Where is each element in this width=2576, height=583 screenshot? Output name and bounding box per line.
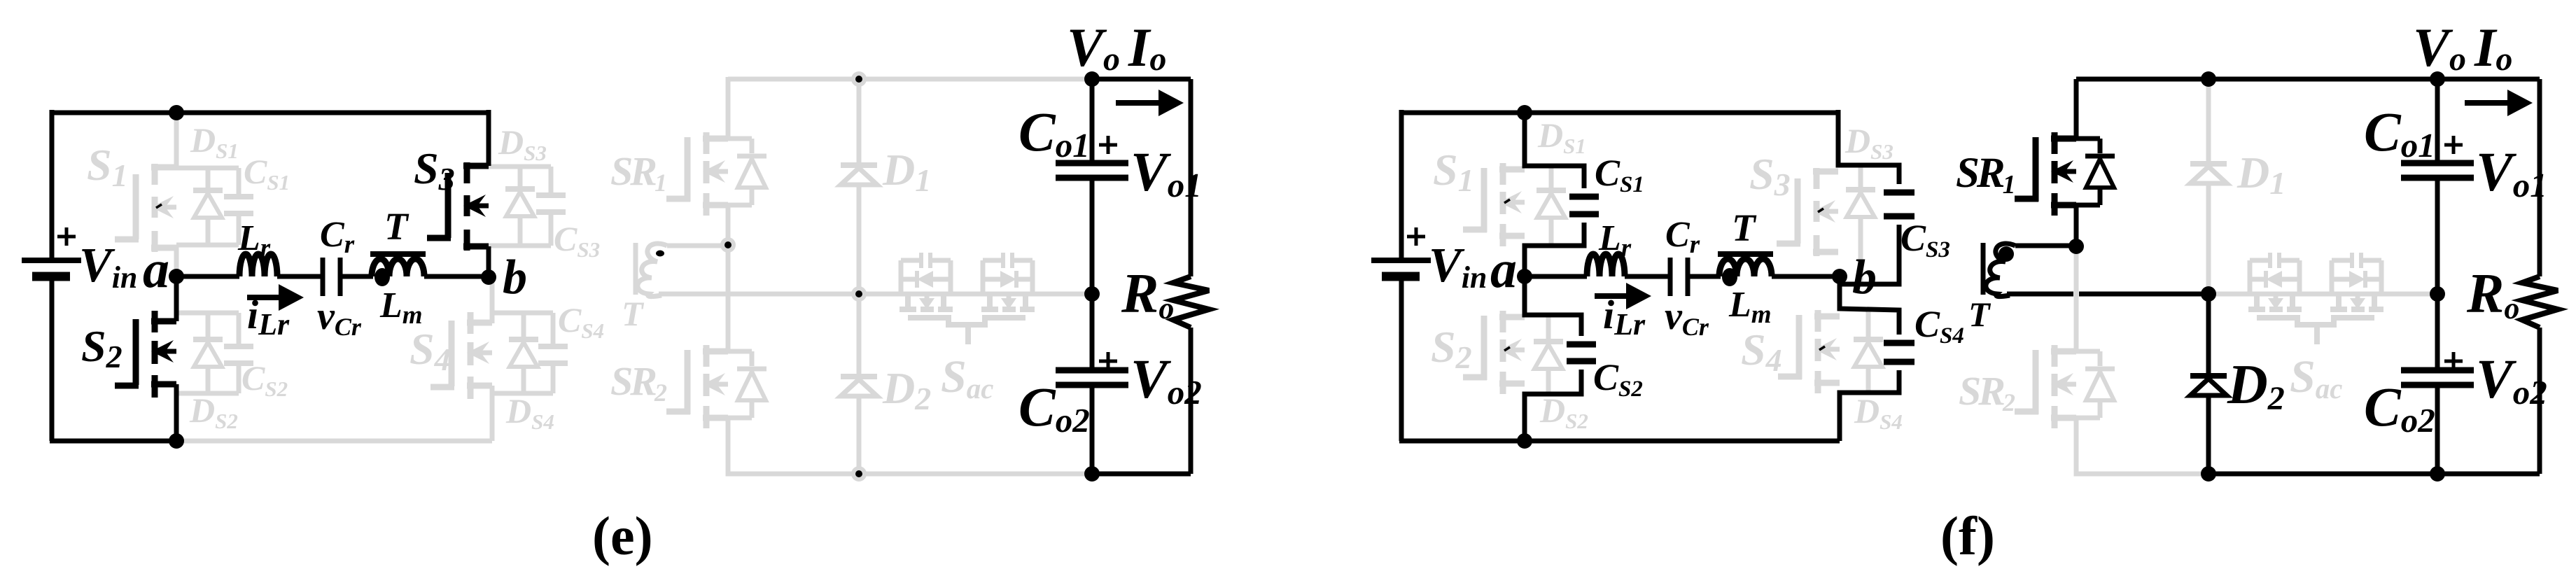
diode D2 (f dark) bbox=[2190, 376, 2227, 395]
transistor S2 (dark MOSFET) bbox=[115, 311, 176, 398]
wire Sac mid rail (f gray) bbox=[2208, 292, 2437, 297]
capacitor Co1 (e) bbox=[1056, 163, 1128, 178]
wire CS1 zigzag (f) bbox=[1525, 113, 1584, 276]
label iLr (e) bbox=[247, 292, 290, 342]
battery Vin short plate bbox=[32, 272, 70, 281]
svg-text:T: T bbox=[384, 205, 409, 248]
inductor Lm (f) bbox=[1719, 259, 1772, 276]
capacitor CS2 (gray) bbox=[224, 313, 253, 393]
label vCr (e) bbox=[317, 295, 362, 341]
battery Vin long plate (f) bbox=[1371, 258, 1431, 263]
wire node a to S2 drain bbox=[174, 276, 179, 321]
wire left vertical below battery bbox=[50, 279, 55, 441]
label CS3 (gray) bbox=[554, 219, 600, 262]
diode DS1 (gray body diode) bbox=[193, 168, 223, 245]
label DS1 (f gray) bbox=[1537, 115, 1586, 158]
wire Co2 to bottom rail (f) bbox=[2435, 385, 2440, 474]
wire D1 column (f gray) bbox=[2206, 79, 2211, 294]
node output top dot (e) bbox=[1084, 71, 1100, 87]
label CS2 (f dark) bbox=[1593, 356, 1643, 402]
battery plus sign (f) bbox=[1407, 227, 1425, 246]
svg-text:b: b bbox=[1852, 251, 1877, 304]
wire mid rail dark left (f) bbox=[2007, 292, 2073, 297]
label Vin (f) bbox=[1429, 239, 1487, 295]
diode DS3 (gray body diode) bbox=[505, 167, 535, 246]
svg-text:b: b bbox=[503, 251, 527, 304]
wire mid node to Co2 (e) bbox=[1090, 294, 1095, 370]
label SR1 (f dark) bbox=[1956, 150, 2014, 199]
diode DS4 (f gray body diode) bbox=[1854, 310, 1883, 393]
wire Co2 to bottom rail (e) bbox=[1090, 385, 1095, 474]
diode DS2 (f gray body diode) bbox=[1534, 315, 1563, 394]
wire D1 D2 column (e gray) bbox=[857, 79, 862, 474]
capacitor CS1 (f dark) bbox=[1569, 197, 1599, 214]
label Co2 (f) bbox=[2364, 377, 2435, 440]
switch Sac (e gray) bbox=[899, 253, 1035, 344]
wire SR2 source to bottom rail (gray) bbox=[728, 418, 1092, 474]
wire D/C branch top of S3 (gray) bbox=[489, 164, 551, 169]
transistor SR1 (f dark MOSFET) bbox=[2015, 132, 2076, 216]
wire S3 leg top corner (f) bbox=[1836, 110, 1841, 113]
wire D/C branch bottom of S1 (gray) bbox=[176, 243, 239, 248]
wire secondary top rail (e gray) bbox=[728, 77, 1092, 82]
label CS1 (f dark) bbox=[1595, 152, 1644, 197]
label Vo Io (e) bbox=[1067, 17, 1166, 78]
svg-text:(f): (f) bbox=[1940, 505, 1995, 566]
transformer secondary winding (f) bbox=[1986, 244, 2015, 297]
label iLr (f) bbox=[1603, 292, 1646, 342]
wire Co1 to mid node (e) bbox=[1090, 178, 1095, 294]
label Co1 (e) bbox=[1018, 102, 1090, 164]
transistor S3 (dark MOSFET) bbox=[427, 162, 489, 251]
label Vo Io (f) bbox=[2413, 17, 2512, 78]
label CS4 (f dark) bbox=[1914, 303, 1964, 349]
wire load right branch top (e) bbox=[1189, 79, 1193, 276]
capacitor CS2 (f dark) bbox=[1567, 344, 1596, 361]
label S3 bbox=[414, 143, 455, 197]
capacitor CS3 (f dark) bbox=[1884, 192, 1914, 216]
label node b (f) bbox=[1852, 251, 1877, 304]
node b dot (e) bbox=[481, 269, 496, 285]
wire D/C branch top of S4 (gray) bbox=[492, 311, 553, 316]
wire S3 source to node b bbox=[486, 246, 491, 277]
svg-text:(e): (e) bbox=[592, 505, 653, 566]
inductor Lm (e) bbox=[372, 259, 424, 276]
label CS1 (gray) bbox=[244, 152, 290, 195]
label DS3 (f gray) bbox=[1844, 121, 1893, 164]
node bottom junction dot (f) bbox=[1517, 433, 1532, 449]
label T secondary (f) bbox=[1968, 295, 1991, 334]
label CS4 (gray) bbox=[558, 300, 604, 343]
diode of SR1 (f dark) bbox=[2076, 139, 2115, 205]
wire output top rail dark (e) bbox=[1092, 77, 1191, 82]
capacitor CS4 (gray) bbox=[538, 313, 568, 393]
wire D/C branch top of S2 (gray) bbox=[176, 311, 239, 316]
label S3 (f gray) bbox=[1749, 149, 1791, 202]
diode D1 (f gray) bbox=[2190, 164, 2227, 183]
inductor Lr (e) bbox=[239, 254, 277, 276]
transistor SR2 (gray MOSFET) bbox=[666, 345, 728, 428]
transistor SR1 (gray MOSFET) bbox=[666, 132, 728, 216]
label S2 (f gray) bbox=[1431, 322, 1472, 375]
wire D/C branch bottom of S3 (gray) bbox=[489, 244, 551, 248]
svg-text:a: a bbox=[143, 240, 169, 299]
label Vo2 (e) bbox=[1130, 349, 1202, 412]
resistor Ro (f) bbox=[2522, 276, 2558, 328]
wire SR1 drain vertical (gray) bbox=[726, 77, 731, 139]
switch Sac (f gray) bbox=[2248, 253, 2383, 344]
battery Vin long plate bbox=[22, 258, 81, 263]
wire S1 source to node a (gray) bbox=[174, 246, 179, 276]
transistor S1 (gray MOSFET) bbox=[115, 164, 176, 252]
svg-text:a: a bbox=[1490, 240, 1517, 299]
wire center tap to SR junction (gray) bbox=[667, 244, 728, 248]
label S4 (gray) bbox=[409, 324, 451, 377]
node a dot (e) bbox=[169, 269, 184, 284]
label DS4 (gray) bbox=[505, 391, 554, 434]
polarity dot secondary (e) bbox=[656, 251, 664, 257]
wire SR1 source to tap node (f) bbox=[2074, 205, 2079, 246]
node output top dot (f) bbox=[2430, 71, 2445, 87]
current arrow iLr (f) bbox=[1595, 283, 1651, 309]
diode DS3 (f gray body diode) bbox=[1846, 165, 1875, 284]
label D1 (f gray) bbox=[2236, 148, 2285, 201]
label D2 (f dark) bbox=[2227, 354, 2285, 417]
polarity dot secondary (f) bbox=[1998, 246, 2014, 262]
wire Co1 top lead (f) bbox=[2435, 79, 2440, 163]
label Lr (f) bbox=[1598, 218, 1632, 262]
wire mid rail (e gray) bbox=[659, 292, 1092, 297]
plus sign Vo1 (e) bbox=[1099, 136, 1117, 154]
node dot D2 bottom (e) bbox=[851, 466, 867, 482]
wire SR1 drain vertical (f) bbox=[2074, 79, 2079, 139]
label D2 (e gray) bbox=[882, 363, 931, 416]
wire Lm to node b (f) bbox=[1772, 274, 1840, 279]
svg-text:T: T bbox=[1968, 295, 1991, 334]
label Co2 (e) bbox=[1018, 377, 1090, 440]
wire bottom rail gray segment bbox=[176, 439, 492, 444]
wire mid rail dark right (f) bbox=[2079, 292, 2208, 297]
label Lr (e) bbox=[237, 218, 271, 262]
node output mid dot (f) bbox=[2430, 286, 2445, 302]
battery plus sign bbox=[57, 227, 76, 246]
node dot D1 bottom mid rail (e) bbox=[851, 286, 867, 302]
current arrow iLr (e) bbox=[247, 284, 304, 311]
label Sac (e gray) bbox=[941, 351, 993, 405]
wire CS3 zigzag (f) bbox=[1838, 113, 1899, 284]
transistor S3 (f gray MOSFET) bbox=[1777, 168, 1838, 256]
wire center tap to SR junction (f) bbox=[2015, 244, 2076, 248]
label D1 (e gray) bbox=[882, 145, 931, 198]
label S1 (gray) bbox=[87, 140, 128, 193]
label SR1 (gray) bbox=[610, 148, 665, 197]
diode D1 (e gray) bbox=[841, 165, 877, 185]
label Co1 (f) bbox=[2364, 102, 2435, 164]
caption (e) bbox=[592, 505, 653, 566]
wire S2 source to bottom rail bbox=[174, 384, 179, 441]
label DS3 (gray) bbox=[498, 122, 547, 165]
capacitor Cr (f) bbox=[1670, 258, 1688, 296]
diode DS2 (gray body diode) bbox=[193, 313, 223, 393]
label Cr (e) bbox=[320, 215, 355, 259]
diode D2 (e gray) bbox=[841, 377, 877, 396]
polarity dot Lm (e) bbox=[374, 268, 390, 286]
node transformer tap dot (f) bbox=[2068, 239, 2084, 254]
current arrow Io (e) bbox=[1116, 90, 1184, 116]
wire CS2 zigzag (f) bbox=[1525, 276, 1581, 441]
wire Co1 to mid node (f) bbox=[2435, 178, 2440, 294]
wire S4 leg vertical bottom (gray) bbox=[490, 386, 495, 441]
label Lm (e) bbox=[379, 286, 423, 330]
wire load right branch top (f) bbox=[2537, 79, 2542, 276]
inductor Lr (f) bbox=[1587, 254, 1625, 276]
wire SR2 drain vertical (f gray) bbox=[2074, 246, 2079, 351]
transformer secondary core (e gray) bbox=[633, 243, 638, 295]
caption (f) bbox=[1940, 505, 1995, 566]
label node b (e) bbox=[503, 251, 527, 304]
wire bottom rail (f) bbox=[1399, 439, 1840, 444]
label Vo1 (e) bbox=[1130, 142, 1202, 204]
label Vin bbox=[79, 239, 137, 295]
battery Vin short plate (f) bbox=[1382, 272, 1420, 281]
wire SR1 source to tap node (gray) bbox=[726, 205, 731, 245]
plus sign Vo1 (f) bbox=[2444, 136, 2463, 154]
diode of SR1 (gray) bbox=[728, 139, 766, 205]
wire left vertical below battery (f) bbox=[1399, 279, 1404, 441]
wire bottom rail dark (e) bbox=[50, 439, 176, 444]
wire load right branch bottom (f) bbox=[2537, 328, 2542, 474]
node D1 top dot (f) bbox=[2201, 71, 2216, 87]
label S1 (f gray) bbox=[1433, 145, 1474, 198]
wire Co1 top lead (e) bbox=[1090, 79, 1095, 163]
label Lm (f) bbox=[1728, 285, 1772, 329]
node D2 bottom dot (f) bbox=[2201, 466, 2216, 482]
label SR2 (gray) bbox=[610, 358, 667, 407]
wire left vertical to battery (f) bbox=[1399, 110, 1404, 258]
label SR2 (f gray) bbox=[1959, 368, 2015, 416]
label S4 (f gray) bbox=[1741, 325, 1782, 378]
node output mid dot (e) bbox=[1084, 286, 1100, 302]
label T primary (e) bbox=[384, 205, 409, 248]
wire D/C branch top of S1 (gray) bbox=[176, 166, 239, 171]
label Vo1 (f) bbox=[2476, 142, 2547, 204]
wire Lm to node b (e) bbox=[424, 274, 489, 279]
node mid rail dot (f) bbox=[2201, 286, 2216, 302]
svg-text:T: T bbox=[1732, 206, 1757, 249]
transistor S2 (f gray MOSFET) bbox=[1463, 311, 1525, 394]
label Ro (f) bbox=[2466, 263, 2519, 325]
transistor S4 (f gray MOSFET) bbox=[1778, 310, 1840, 393]
node output bottom dot (e) bbox=[1084, 466, 1100, 482]
node dot D1 top (e) bbox=[851, 71, 867, 87]
wire output bottom rail dark (e) bbox=[1092, 472, 1191, 477]
wire left vertical to battery bbox=[50, 110, 55, 258]
label Ro (e) bbox=[1121, 263, 1174, 325]
wire Lr to Cr (e) bbox=[277, 274, 321, 279]
transistor S4 (gray MOSFET) bbox=[430, 312, 492, 399]
label vCr (f) bbox=[1665, 295, 1709, 341]
label Sac (f gray) bbox=[2290, 351, 2342, 405]
capacitor Co2 (e) bbox=[1056, 370, 1128, 385]
node top junction dot (f) bbox=[1517, 105, 1532, 120]
label node a (e) bbox=[143, 240, 169, 299]
diode DS4 (gray body diode) bbox=[509, 313, 538, 393]
polarity dot Lm (f) bbox=[1722, 268, 1737, 286]
node dot transformer tap (e) bbox=[720, 237, 736, 253]
capacitor Co1 (f) bbox=[2401, 163, 2474, 178]
transformer core bar primary (f) bbox=[1718, 251, 1773, 257]
wire S4 leg vertical top (gray) bbox=[490, 277, 495, 323]
plus sign Vo2 (f) bbox=[2444, 352, 2463, 370]
wire output top rail (f) bbox=[2076, 77, 2540, 82]
plus sign Vo2 (e) bbox=[1099, 352, 1117, 370]
resistor Ro (e) bbox=[1173, 276, 1209, 328]
transistor SR2 (f gray MOSFET) bbox=[2015, 345, 2076, 428]
capacitor Co2 (f) bbox=[2401, 370, 2474, 385]
node b dot (f) bbox=[1832, 269, 1847, 284]
wire Cr to Lm (e) bbox=[340, 274, 373, 279]
wire D/C branch bottom of S4 (gray) bbox=[492, 391, 553, 396]
transformer secondary winding (e gray) bbox=[638, 244, 667, 297]
wire Cr to Lm (f) bbox=[1688, 274, 1721, 279]
node top junction dot (e) bbox=[169, 105, 184, 120]
wire top rail (e) bbox=[52, 111, 489, 115]
label node a (f) bbox=[1490, 240, 1517, 299]
label DS2 (gray) bbox=[189, 391, 238, 433]
label CS2 (gray) bbox=[241, 358, 288, 401]
wire SR2 source to bottom rail (f gray) bbox=[2076, 418, 2208, 474]
label CS3 (f dark) bbox=[1900, 217, 1950, 262]
capacitor CS3 (gray) bbox=[536, 167, 566, 246]
transformer secondary core (f) bbox=[1981, 243, 1986, 295]
diode of SR2 (f gray) bbox=[2076, 351, 2115, 418]
diode DS1 (f gray body diode) bbox=[1536, 166, 1566, 246]
capacitor Cr (e) bbox=[323, 258, 340, 296]
wire Lr to Cr (f) bbox=[1625, 274, 1669, 279]
node a dot (f) bbox=[1517, 269, 1532, 284]
capacitor CS4 (f dark) bbox=[1884, 343, 1914, 362]
label S2 bbox=[81, 321, 122, 374]
wire node a to Lr (f) bbox=[1525, 274, 1587, 279]
wire load right branch bottom (e) bbox=[1189, 328, 1193, 474]
transistor S1 (f gray MOSFET) bbox=[1463, 163, 1525, 246]
wire D2 column (f dark) bbox=[2206, 294, 2211, 474]
wire SR2 drain vertical (gray) bbox=[726, 245, 731, 351]
label Vo2 (f) bbox=[2476, 349, 2547, 412]
wire output bottom rail dark (f) bbox=[2208, 472, 2540, 477]
label T secondary (e gray) bbox=[622, 294, 645, 333]
label DS1 (gray) bbox=[190, 120, 239, 163]
label T primary (f) bbox=[1732, 206, 1757, 249]
wire node a to Lr bbox=[176, 274, 239, 279]
wire top rail (f) bbox=[1401, 111, 1838, 115]
diode of SR2 (gray) bbox=[728, 351, 766, 418]
transformer core bar primary (e) bbox=[370, 251, 426, 257]
wire mid node to Co2 (f) bbox=[2435, 294, 2440, 370]
label DS2 (f gray) bbox=[1539, 391, 1588, 433]
node output bottom dot (f) bbox=[2430, 466, 2445, 482]
wire D/C branch bottom of S2 (gray) bbox=[176, 391, 239, 396]
wire CS4 zigzag (f) bbox=[1840, 276, 1899, 441]
svg-text:T: T bbox=[622, 294, 645, 333]
label DS4 (f gray) bbox=[1854, 391, 1903, 434]
label Cr (f) bbox=[1665, 215, 1700, 259]
node bottom junction dot (e) bbox=[169, 433, 184, 449]
current arrow Io (f) bbox=[2465, 90, 2533, 116]
wire S1 leg vertical (gray) bbox=[174, 113, 179, 168]
capacitor CS1 (gray) bbox=[224, 168, 253, 245]
wire S3 drain from top rail bbox=[486, 110, 491, 166]
